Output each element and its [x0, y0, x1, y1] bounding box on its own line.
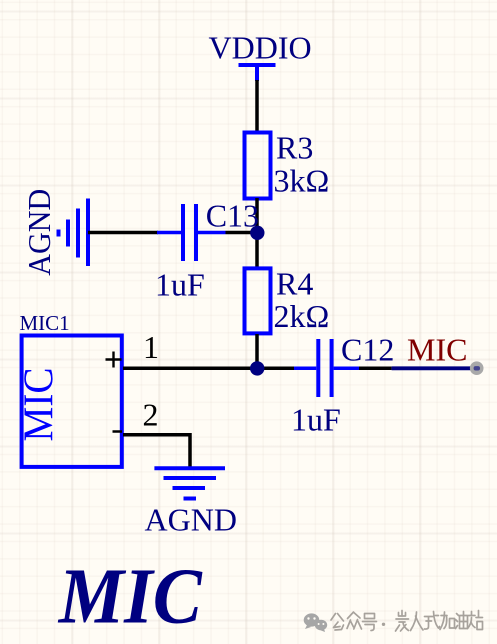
svg-text:AGND: AGND — [145, 502, 237, 538]
wire C12 to MIC net — [359, 367, 392, 371]
resistor R3 — [245, 133, 271, 199]
svg-text:1: 1 — [143, 329, 159, 365]
嵌 — [396, 611, 409, 632]
svg-text:1uF: 1uF — [291, 402, 341, 438]
svg-text:MIC: MIC — [407, 332, 467, 368]
watermark text 公众号·嵌入式加油站 (drawn strokes) — [331, 611, 483, 632]
svg-text:2: 2 — [143, 397, 159, 433]
ground AGND (bottom) symbol — [154, 468, 225, 498]
公 — [331, 614, 344, 631]
svg-text:C12: C12 — [341, 332, 394, 368]
node A junction — [250, 226, 264, 240]
svg-text:1uF: 1uF — [155, 267, 205, 303]
component MIC1 body — [22, 336, 122, 467]
ground AGND (left) symbol — [59, 199, 89, 267]
pin 2 minus mark — [113, 430, 123, 433]
svg-text:R4: R4 — [276, 266, 313, 302]
wire R3 to node A — [255, 198, 259, 268]
· — [382, 623, 385, 626]
wire VDDIO to R3 — [255, 80, 259, 132]
入 — [411, 612, 424, 631]
port endpoint circle — [470, 361, 484, 375]
svg-text:MIC: MIC — [57, 554, 203, 641]
svg-text:3kΩ: 3kΩ — [274, 163, 330, 199]
svg-text:C13: C13 — [206, 198, 259, 234]
node B junction — [250, 361, 264, 375]
svg-text:AGND: AGND — [21, 189, 57, 276]
svg-text:2kΩ: 2kΩ — [274, 298, 330, 334]
pin 1 wire to node B — [123, 367, 294, 371]
pin 1 plus mark — [106, 352, 122, 368]
svg-text:VDDIO: VDDIO — [209, 30, 312, 66]
resistor R4 — [245, 268, 271, 333]
svg-text:MIC1: MIC1 — [20, 311, 70, 335]
加 — [440, 612, 455, 630]
pin 2 wire — [123, 435, 190, 468]
wire R4 to node B — [255, 334, 259, 370]
wire MIC net (navy) — [392, 366, 477, 370]
svg-text:R3: R3 — [276, 130, 313, 166]
wire AGND to C13 — [88, 231, 158, 235]
站 — [468, 611, 483, 630]
号 — [363, 614, 377, 631]
capacitor C12 — [294, 339, 359, 397]
油 — [456, 612, 468, 629]
众 — [347, 612, 362, 629]
wire C13 to node A — [226, 231, 259, 235]
capacitor C13 — [157, 204, 226, 261]
watermark wechat icon — [304, 613, 327, 632]
svg-text:MIC: MIC — [17, 368, 63, 442]
式 — [425, 612, 440, 630]
power symbol VDDIO bar — [239, 65, 276, 81]
